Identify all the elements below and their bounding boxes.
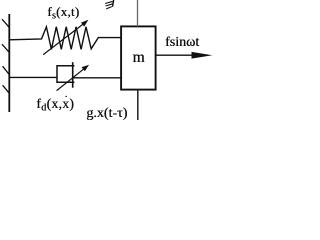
mass m box: [121, 26, 156, 89]
spring fs (wire + zigzag wall to mass): [9, 27, 121, 50]
damper rod right (piston to mass): [73, 77, 122, 79]
wall hatch 1: [2, 19, 9, 27]
label m: [131, 49, 146, 67]
line up from mass top: [137, 0, 139, 26]
label fs(x,t): [47, 4, 79, 22]
damper nonlinearity arrow: [57, 67, 86, 90]
wall hatch 2: [2, 44, 9, 52]
ceiling stub hatch 3: [106, 7, 112, 9]
forcing arrow fsinwt: [156, 54, 200, 56]
line down from mass bottom (delayed feedback path): [137, 90, 139, 120]
wall (left fixed support): [8, 14, 10, 112]
ceiling stub hatch 1: [105, 1, 113, 3]
label g.x(t-tau): [86, 106, 127, 122]
damper piston plate: [72, 62, 74, 87]
ceiling stub hatch 2: [106, 4, 114, 6]
ceiling stub (top, hatched anchor): [113, 0, 114, 7]
wall hatch 4: [3, 85, 10, 93]
spring nonlinearity arrow: [43, 23, 85, 55]
damper cup: [57, 66, 74, 83]
label fsinwt: [165, 35, 199, 51]
damper rod left (wall to cup): [9, 76, 57, 78]
wall hatch 3: [3, 66, 10, 74]
label fd(x,xdot): [36, 96, 74, 114]
